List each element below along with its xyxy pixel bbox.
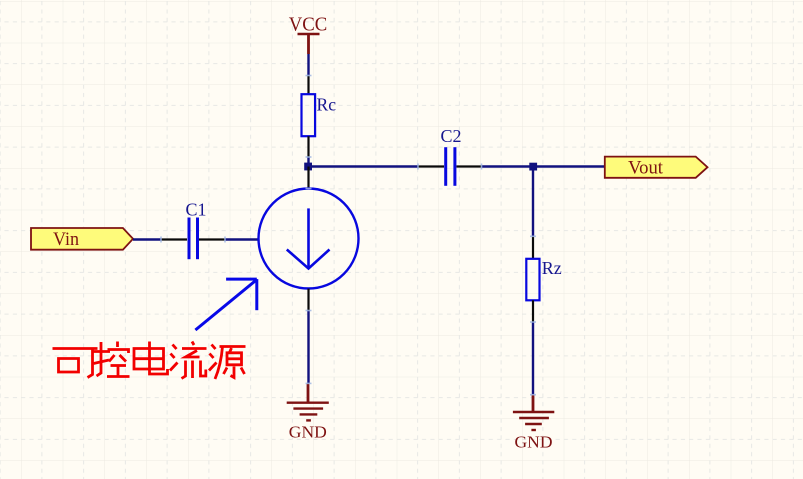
svg-text:GND: GND [289,423,327,442]
resistor Rz [526,259,539,301]
pin C2.2 [457,165,482,167]
port Vout [605,157,708,179]
current source arrow [287,208,330,268]
pin Rc.2 [307,136,309,157]
svg-text:Vout: Vout [628,158,664,179]
svg-text:VCC: VCC [289,14,328,36]
power port GND2 [513,395,554,452]
pin C1.2 [199,238,225,240]
wire node B to Vout port [533,165,605,167]
power port VCC [289,14,328,55]
pin Rz.2 [532,300,534,322]
pin C2.1 [418,165,444,167]
wire node B to Rz [532,167,534,237]
capacitor C1 [189,218,198,260]
current source U1 circle [259,189,359,289]
pin hotspot marks [161,76,536,395]
wire Rc to node A [307,157,309,167]
annotation arrow [195,279,256,330]
annotation text 可控电流源 (drawn) [53,342,246,380]
pin current-source top [307,167,309,189]
svg-text:C1: C1 [186,200,207,220]
power port GND1 [287,383,329,441]
wire VCC to Rc [307,54,309,76]
源 [212,345,216,350]
junction node A [304,163,312,171]
svg-text:GND: GND [515,433,553,452]
wire node A to C2 [307,165,418,167]
控 [97,342,102,376]
可 [53,347,98,350]
svg-text:Vin: Vin [53,229,79,250]
svg-text:C2: C2 [441,126,462,146]
svg-text:Rz: Rz [542,258,562,278]
resistor Rc [302,94,316,136]
capacitor C2 [446,147,455,186]
流 [173,345,177,350]
port Vin [31,228,133,250]
wire C2 to node B [482,165,534,167]
wire C1 to current source [225,238,259,240]
电 [150,342,168,375]
svg-text:Rc: Rc [317,95,337,115]
wire Vin to C1 [133,238,161,240]
wire current source to GND1 [307,311,309,384]
pin Rz.1 [532,236,534,258]
pin current-source bottom [307,289,309,311]
wire Rz to GND2 [532,322,534,395]
pin Rc.1 [307,76,309,95]
pin C1.1 [161,238,187,240]
junction node B [529,163,537,171]
